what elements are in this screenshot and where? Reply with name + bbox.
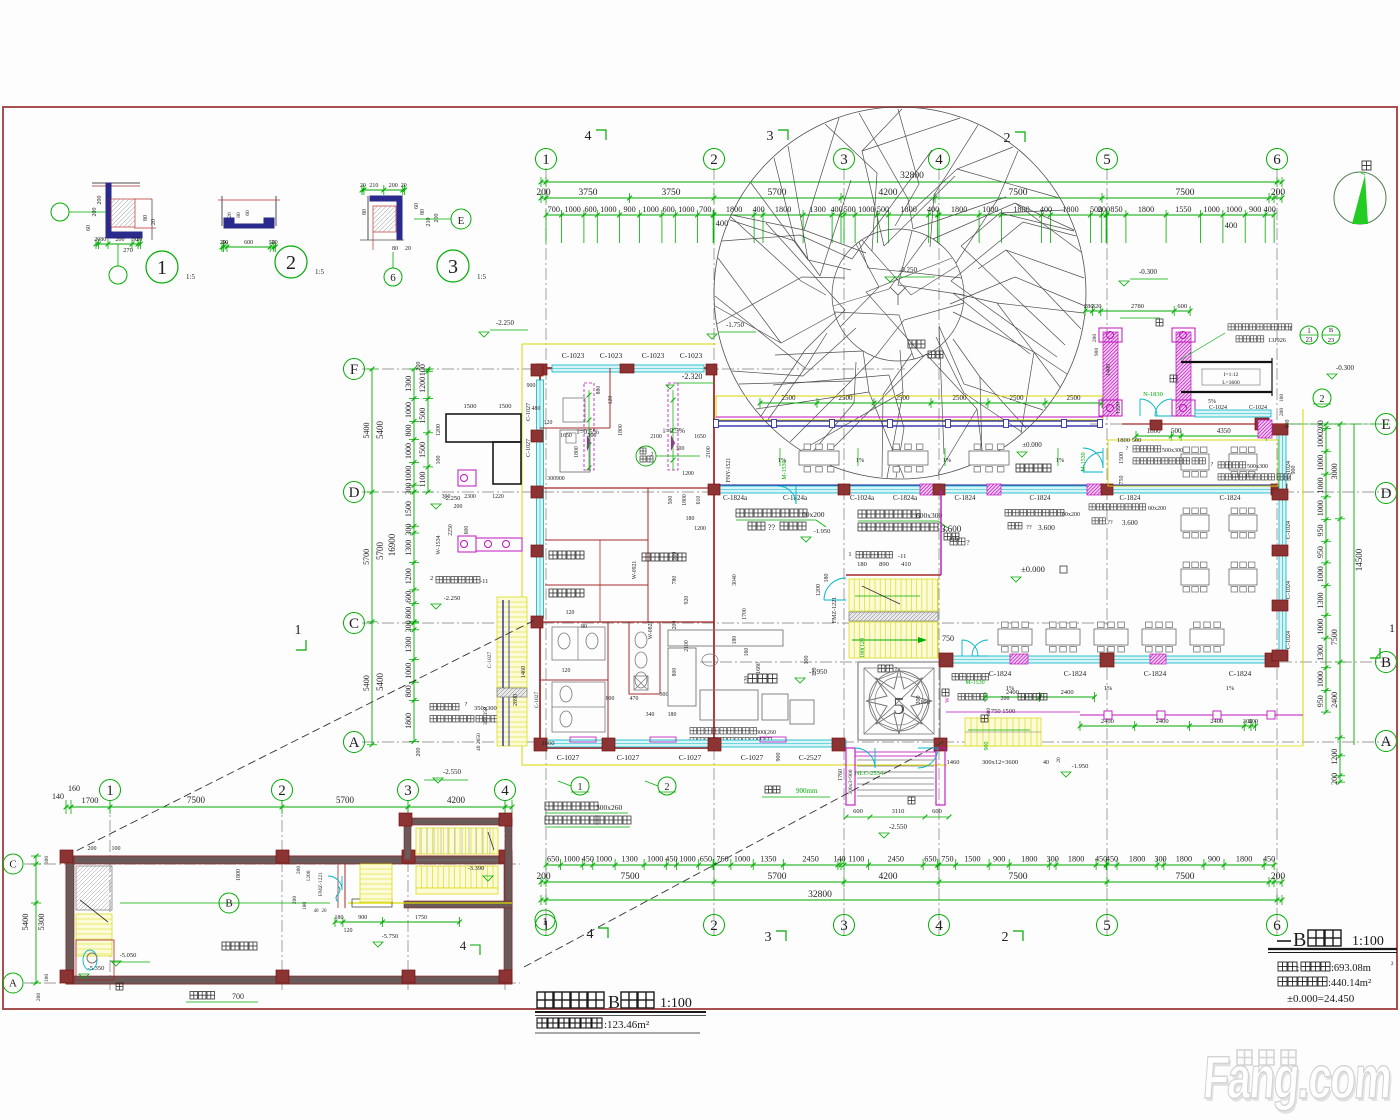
svg-text:300x12=3600: 300x12=3600 [982, 759, 1018, 766]
svg-text:20: 20 [360, 183, 366, 189]
svg-text:1500: 1500 [1119, 452, 1125, 464]
svg-text:200: 200 [1001, 696, 1010, 702]
svg-text:?: ? [465, 701, 468, 708]
svg-text:7500: 7500 [1176, 872, 1195, 882]
svg-text:200: 200 [916, 696, 922, 705]
svg-text:1800: 1800 [1068, 855, 1084, 864]
rest area [748, 674, 757, 683]
svg-text:100: 100 [1279, 394, 1285, 403]
svg-text:1860: 1860 [542, 740, 555, 747]
kitchen interior partitions [540, 427, 610, 429]
svg-text:100: 100 [112, 846, 121, 852]
svg-text:-5.350: -5.350 [88, 965, 105, 972]
svg-text:2500: 2500 [953, 394, 968, 402]
svg-text:1800: 1800 [1021, 855, 1037, 864]
svg-text:??: ?? [1107, 520, 1113, 526]
svg-text:1200: 1200 [694, 526, 706, 532]
svg-text:1500: 1500 [418, 442, 427, 458]
svg-text:920: 920 [684, 596, 690, 605]
svg-text:300: 300 [1154, 855, 1166, 864]
svg-text:3: 3 [765, 930, 772, 945]
svg-text:1500: 1500 [404, 501, 413, 517]
svg-text:1:5: 1:5 [477, 273, 486, 281]
svg-text:1000: 1000 [858, 205, 874, 214]
svg-text:1%: 1% [1056, 457, 1065, 464]
svg-text:?: ? [1126, 446, 1129, 452]
svg-text:20: 20 [136, 237, 142, 243]
svg-text:40: 40 [1043, 760, 1049, 766]
svg-text:100: 100 [44, 974, 50, 983]
svg-text:C-1824: C-1824 [1144, 669, 1167, 678]
axis circle F [344, 359, 365, 380]
svg-text:750: 750 [1119, 476, 1125, 485]
svg-text:200: 200 [92, 208, 98, 217]
svg-text:1220: 1220 [492, 494, 504, 500]
svg-text:4200: 4200 [879, 872, 898, 882]
main title B plan [1277, 940, 1291, 942]
svg-text:5400: 5400 [362, 675, 371, 691]
svg-text:500: 500 [668, 496, 674, 505]
svg-text:5300: 5300 [36, 914, 46, 931]
svg-text:200: 200 [416, 362, 422, 371]
svg-text:-5.750: -5.750 [382, 933, 399, 940]
svg-text:480: 480 [532, 406, 541, 412]
svg-text:4: 4 [460, 938, 467, 953]
svg-text:B: B [1293, 929, 1306, 951]
svg-text:1200: 1200 [436, 424, 442, 436]
svg-text:?: ? [966, 539, 969, 547]
svg-text:1000: 1000 [982, 205, 998, 214]
svg-text:200: 200 [389, 183, 398, 189]
svg-text:D: D [1381, 486, 1392, 502]
svg-text:B: B [225, 898, 232, 910]
svg-text:C-1027: C-1027 [526, 439, 532, 457]
svg-text:120: 120 [608, 396, 614, 405]
svg-text:400: 400 [830, 205, 842, 214]
svg-text:300900: 300900 [547, 476, 564, 482]
svg-text:470: 470 [630, 696, 639, 702]
axis circle C [344, 613, 365, 634]
svg-text:1100: 1100 [418, 472, 427, 488]
svg-text:20: 20 [227, 212, 233, 218]
svg-text:±0.000=24.450: ±0.000=24.450 [1287, 993, 1355, 1005]
svg-text:140: 140 [52, 792, 64, 801]
svg-text:1000: 1000 [1316, 455, 1325, 471]
axis circle 5 [1097, 915, 1118, 936]
svg-text:1000: 1000 [679, 855, 695, 864]
svg-text:900: 900 [527, 383, 536, 389]
svg-text:1%: 1% [1006, 685, 1015, 692]
svg-text:1000: 1000 [643, 205, 659, 214]
svg-text:1000: 1000 [1316, 500, 1325, 516]
right wing tables [1181, 454, 1209, 470]
svg-text:200: 200 [1248, 718, 1258, 725]
svg-text:610: 610 [696, 496, 702, 505]
svg-text:1: 1 [542, 152, 550, 168]
svg-text:270: 270 [123, 247, 133, 254]
svg-text:780: 780 [672, 576, 678, 585]
svg-text:5700: 5700 [336, 795, 355, 805]
cellar middle partition + door [344, 864, 346, 908]
svg-text:3: 3 [448, 256, 458, 278]
svg-text:760: 760 [716, 855, 728, 864]
svg-text:-2.550: -2.550 [889, 823, 908, 831]
svg-text:2: 2 [286, 252, 296, 274]
hall doors M-1530 [778, 486, 796, 504]
svg-text:200: 200 [1316, 420, 1325, 432]
north arrow [1334, 172, 1386, 224]
axis circle 3 [834, 915, 855, 936]
svg-text:880: 880 [596, 386, 602, 395]
wine cellar title [537, 992, 553, 1008]
svg-text:120: 120 [562, 668, 571, 674]
svg-text:2400: 2400 [1156, 718, 1169, 725]
svg-text:C-2527: C-2527 [799, 753, 822, 762]
svg-text:±0.000: ±0.000 [1022, 441, 1042, 449]
svg-text:60: 60 [245, 210, 251, 216]
kitchen shafts cyan hatched [584, 383, 594, 470]
svg-text:C-1027: C-1027 [487, 652, 493, 669]
svg-text:M-1530: M-1530 [965, 680, 984, 686]
svg-text:2250: 2250 [448, 524, 454, 536]
top-right terrace columns [1103, 332, 1118, 416]
svg-text:FMZ-1221: FMZ-1221 [318, 872, 324, 896]
svg-text:1: 1 [157, 257, 167, 279]
svg-text:20: 20 [401, 183, 407, 189]
circled refs below bottom wall [571, 777, 589, 795]
svg-text:300: 300 [588, 433, 597, 439]
svg-text:900: 900 [672, 552, 678, 561]
svg-text:?: ? [1211, 462, 1214, 468]
svg-text:FNY-1521: FNY-1521 [726, 458, 732, 483]
right dimension band [1325, 424, 1327, 712]
svg-text:4200: 4200 [879, 188, 898, 198]
svg-text:5400: 5400 [20, 914, 30, 931]
svg-text:1800: 1800 [1176, 855, 1192, 864]
axis circle 5 [1097, 149, 1118, 170]
axis circle 4 [929, 915, 950, 936]
D-axis window band C-1824 [714, 486, 1279, 493]
svg-text:16900: 16900 [387, 533, 397, 556]
black counter outside [446, 414, 521, 442]
svg-text:1800: 1800 [775, 205, 791, 214]
svg-text:2500: 2500 [896, 394, 911, 402]
changing rooms text [549, 551, 557, 559]
svg-text::693.08m: :693.08m [1331, 963, 1371, 974]
svg-text:2: 2 [1002, 930, 1009, 945]
svg-text:2500: 2500 [1067, 394, 1082, 402]
svg-text:2: 2 [278, 783, 286, 799]
svg-text:1650: 1650 [560, 433, 572, 439]
svg-text:2780: 2780 [1131, 303, 1144, 310]
axis circle 4 [495, 780, 516, 801]
svg-text:600: 600 [244, 240, 253, 246]
sofa group [668, 630, 783, 646]
svg-text:20: 20 [322, 909, 328, 914]
svg-text:200: 200 [536, 872, 551, 882]
svg-text:C-1824: C-1824 [1220, 494, 1242, 502]
A-axis terrace rail right [1080, 714, 1303, 716]
svg-text:2500: 2500 [782, 394, 797, 402]
svg-text:1000: 1000 [1316, 566, 1325, 582]
svg-text:500x300: 500x300 [1247, 464, 1268, 470]
svg-text:-1.750: -1.750 [726, 321, 745, 329]
svg-text:2500: 2500 [1010, 394, 1025, 402]
svg-text:180: 180 [335, 915, 344, 921]
svg-text:1760: 1760 [838, 769, 844, 781]
svg-text:500: 500 [1171, 427, 1182, 435]
svg-text:7500: 7500 [1009, 188, 1028, 198]
svg-text:700: 700 [232, 992, 244, 1001]
svg-text:00x200: 00x200 [1062, 512, 1080, 518]
svg-text:1:100: 1:100 [660, 996, 692, 1011]
svg-text:1800 500: 1800 500 [1117, 437, 1141, 444]
svg-text:450: 450 [1263, 855, 1275, 864]
svg-text:6: 6 [390, 272, 396, 284]
svg-text:1500: 1500 [964, 855, 980, 864]
svg-text:300: 300 [660, 692, 669, 698]
detail 3 corner section [367, 196, 369, 240]
svg-text:950: 950 [1316, 695, 1325, 707]
svg-text:B: B [1381, 655, 1391, 671]
svg-text:1650: 1650 [694, 434, 706, 440]
svg-text:00x200: 00x200 [1148, 506, 1166, 512]
svg-text:700: 700 [548, 205, 560, 214]
svg-text:1300: 1300 [809, 205, 825, 214]
svg-text:4: 4 [935, 152, 943, 168]
svg-text:200: 200 [416, 748, 422, 757]
axis circle A [3, 973, 23, 993]
cellar left dims [35, 856, 37, 984]
svg-text:C-1023: C-1023 [600, 351, 623, 360]
svg-text:-0.300: -0.300 [1139, 268, 1158, 276]
svg-text:500: 500 [843, 205, 855, 214]
axis circle A [1376, 731, 1397, 752]
svg-text:7500: 7500 [1176, 188, 1195, 198]
svg-text:C-1023: C-1023 [680, 351, 703, 360]
svg-text:600: 600 [1177, 303, 1187, 310]
svg-text:120: 120 [566, 610, 575, 616]
svg-text:320: 320 [1092, 303, 1102, 310]
svg-text:1200: 1200 [418, 377, 427, 393]
svg-text:2: 2 [665, 782, 670, 793]
svg-text:890: 890 [879, 561, 889, 568]
svg-text:200: 200 [1271, 188, 1286, 198]
svg-text:400: 400 [1225, 220, 1238, 230]
svg-text:200: 200 [1330, 773, 1339, 785]
svg-text:4: 4 [587, 927, 594, 942]
svg-text:900: 900 [1208, 855, 1220, 864]
svg-text:1000: 1000 [404, 663, 413, 679]
svg-text:5400: 5400 [375, 673, 385, 692]
left stair strip near C axis [497, 597, 527, 746]
svg-text:180: 180 [686, 516, 695, 522]
svg-text:1: 1 [848, 551, 851, 558]
svg-text:20: 20 [272, 240, 278, 246]
right wall window band C-1024 [1279, 429, 1286, 656]
svg-text:1000: 1000 [1204, 205, 1220, 214]
E-wall upper right [1122, 423, 1286, 425]
svg-text:200: 200 [454, 504, 463, 510]
svg-text:?: ? [942, 528, 950, 531]
svg-text:1200: 1200 [404, 568, 413, 584]
svg-text:-0.250: -0.250 [899, 266, 918, 274]
svg-text:450: 450 [665, 855, 677, 864]
yellow insulation outline [522, 344, 947, 765]
axis circle 1 [536, 149, 557, 170]
svg-text:1: 1 [1389, 621, 1395, 635]
svg-text:300(260: 300(260 [756, 729, 776, 736]
svg-text:1000: 1000 [404, 402, 413, 418]
svg-text:200: 200 [97, 196, 103, 205]
tables row2 [998, 629, 1032, 645]
stair block top right of cellar [404, 818, 512, 825]
svg-text:C-1824a: C-1824a [893, 494, 918, 502]
detail 1 wall section [92, 182, 140, 184]
svg-text:950: 950 [1316, 525, 1325, 537]
svg-text:C-1824: C-1824 [1120, 494, 1142, 502]
svg-text:i=0.5%: i=0.5% [663, 426, 685, 435]
svg-text:200: 200 [1279, 408, 1285, 417]
svg-text:1000: 1000 [1316, 478, 1325, 494]
svg-text:1300: 1300 [404, 540, 413, 556]
svg-text:3.600: 3.600 [1038, 523, 1055, 532]
svg-text:??: ?? [1026, 524, 1032, 531]
svg-text:13J926: 13J926 [1268, 337, 1286, 344]
cellar left stair [76, 866, 112, 910]
axis circle B [219, 893, 239, 913]
svg-text:2: 2 [710, 152, 718, 168]
svg-text:3110: 3110 [892, 808, 905, 815]
svg-text:1200: 1200 [816, 584, 822, 596]
svg-text:1700: 1700 [82, 795, 99, 805]
top dimension band [541, 181, 1282, 183]
terrace window band + door N-1830 [1195, 410, 1271, 417]
svg-text:200: 200 [434, 214, 440, 223]
svg-text:3.600: 3.600 [1122, 519, 1138, 527]
svg-text:5: 5 [893, 694, 905, 720]
svg-text:C-1023: C-1023 [642, 351, 665, 360]
svg-text:160: 160 [68, 784, 80, 793]
svg-text:3: 3 [767, 129, 774, 144]
svg-text:D: D [349, 485, 360, 501]
svg-text:800: 800 [404, 685, 413, 697]
svg-text:1800: 1800 [574, 446, 580, 458]
svg-text:60: 60 [414, 203, 420, 209]
wine cellar horizontal axis lines [24, 863, 520, 865]
svg-text:1400: 1400 [1106, 364, 1112, 376]
svg-text:180: 180 [302, 902, 308, 911]
svg-text:1800: 1800 [951, 205, 967, 214]
svg-text:5400: 5400 [375, 421, 385, 440]
svg-text:300: 300 [1047, 855, 1059, 864]
svg-text:1300: 1300 [404, 637, 413, 653]
svg-text:900: 900 [1249, 205, 1261, 214]
svg-text:1460: 1460 [521, 666, 527, 678]
svg-text:1000: 1000 [563, 855, 579, 864]
svg-text:4350: 4350 [1217, 427, 1232, 435]
svg-text:3040: 3040 [732, 574, 738, 586]
svg-text:650: 650 [924, 855, 936, 864]
svg-text:600: 600 [404, 591, 413, 603]
svg-text:C-1024: C-1024 [1249, 405, 1267, 411]
svg-text:180: 180 [668, 712, 677, 718]
detail 1 label [146, 251, 178, 283]
kitchen block outer walls [540, 368, 714, 748]
svg-text:2: 2 [1320, 394, 1325, 405]
svg-text:C-1824: C-1824 [1064, 669, 1087, 678]
svg-text:W-0921: W-0921 [632, 561, 638, 580]
svg-text:750: 750 [942, 634, 954, 643]
svg-text:900: 900 [623, 205, 635, 214]
svg-text:2100: 2100 [706, 446, 712, 458]
svg-text:1: 1 [542, 916, 548, 928]
svg-text:E: E [1381, 417, 1390, 433]
svg-text:400: 400 [1264, 205, 1276, 214]
axis circle B [1376, 652, 1397, 673]
svg-text:3: 3 [404, 783, 412, 799]
svg-text:1%: 1% [1226, 685, 1235, 692]
cellar room name [222, 942, 230, 950]
svg-text:C-1824: C-1824 [1229, 669, 1252, 678]
axis grid horizontal dash-dot lines [362, 368, 905, 370]
svg-text:2890: 2890 [513, 694, 519, 706]
svg-text:200: 200 [296, 866, 302, 875]
accessibility ramp [1181, 361, 1272, 363]
svg-text:1460: 1460 [947, 759, 960, 766]
svg-text:6: 6 [1273, 918, 1281, 934]
svg-text:00x200: 00x200 [802, 510, 825, 519]
svg-text:120: 120 [344, 928, 353, 934]
svg-text:400: 400 [752, 205, 764, 214]
Fang.com watermark [1201, 1044, 1395, 1114]
axis circle 3 [834, 149, 855, 170]
svg-text:180: 180 [857, 561, 867, 568]
svg-text:900: 900 [993, 855, 1005, 864]
window annotations below D [736, 509, 744, 517]
svg-text:20: 20 [405, 246, 411, 252]
svg-text:120: 120 [544, 420, 553, 426]
svg-text:200: 200 [36, 993, 42, 1002]
svg-text:C-1824: C-1824 [989, 669, 1012, 678]
svg-text:900: 900 [1094, 348, 1100, 357]
svg-text:500: 500 [877, 205, 889, 214]
svg-text:W: W [945, 697, 951, 703]
svg-text:1000: 1000 [404, 443, 413, 459]
svg-text:2: 2 [1004, 131, 1011, 146]
svg-text:300: 300 [404, 620, 413, 632]
svg-text:C-1024: C-1024 [1286, 631, 1292, 649]
svg-text:1: 1 [106, 783, 114, 799]
svg-text:410: 410 [901, 561, 911, 568]
toilets [552, 627, 605, 660]
svg-text:1000: 1000 [565, 205, 581, 214]
svg-text:800: 800 [672, 668, 678, 677]
svg-text:A: A [9, 978, 17, 990]
svg-text:4200: 4200 [447, 795, 466, 805]
svg-text:1000: 1000 [596, 855, 612, 864]
svg-text:950: 950 [1316, 546, 1325, 558]
svg-text:1%: 1% [1104, 685, 1113, 692]
fixture room [629, 622, 660, 694]
svg-text:1350: 1350 [760, 855, 776, 864]
svg-text:3750: 3750 [662, 188, 681, 198]
svg-text:;: ; [1297, 963, 1300, 973]
svg-text:-2.320: -2.320 [682, 372, 703, 381]
svg-text:80: 80 [362, 209, 368, 215]
svg-text:4: 4 [585, 129, 592, 144]
svg-text:300 350: 300 350 [483, 707, 489, 725]
